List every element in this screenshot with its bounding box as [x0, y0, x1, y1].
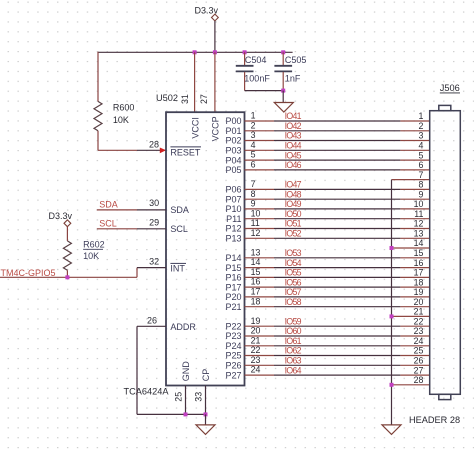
- wire net IO59: [274, 325, 400, 327]
- pin 17 P20 stub: [245, 296, 275, 298]
- wire net IO47: [274, 188, 400, 190]
- svg-text:P22: P22: [225, 321, 241, 331]
- header pin 26 stub: [400, 364, 429, 366]
- wire net IO58: [274, 306, 400, 308]
- svg-text:13: 13: [251, 247, 261, 257]
- header pin 4 stub: [400, 149, 429, 151]
- ground under header: [382, 425, 401, 435]
- wire net IO54: [274, 267, 400, 269]
- wire net IO41: [274, 120, 400, 122]
- svg-text:P26: P26: [225, 361, 241, 371]
- wire net IO43: [274, 140, 400, 142]
- svg-text:25: 25: [174, 392, 184, 402]
- wire net IO48: [274, 198, 400, 200]
- header pin 25 stub: [400, 355, 429, 357]
- pin 26 ADDR stub: [137, 325, 166, 327]
- svg-text:TM4C-GPIO5: TM4C-GPIO5: [1, 268, 56, 278]
- wire net IO44: [274, 149, 400, 151]
- wire net IO57: [274, 296, 400, 298]
- svg-text:7: 7: [251, 179, 256, 189]
- svg-text:SCL: SCL: [99, 218, 117, 228]
- svg-text:31: 31: [180, 94, 190, 104]
- header ground pin 14 stub: [392, 247, 430, 249]
- svg-text:24: 24: [251, 365, 261, 375]
- reference J506: [440, 83, 460, 93]
- svg-text:P03: P03: [225, 146, 241, 156]
- svg-text:GND: GND: [181, 361, 191, 382]
- svg-text:32: 32: [149, 257, 159, 267]
- svg-text:19: 19: [251, 316, 261, 326]
- svg-text:10K: 10K: [83, 251, 99, 261]
- svg-text:1nF: 1nF: [285, 73, 301, 83]
- pin 8 P07 stub: [245, 198, 275, 200]
- pin 27 VCCP stub: [214, 52, 216, 112]
- header ground pin 7 stub: [392, 179, 430, 181]
- pin 30 SDA stub: [137, 209, 166, 211]
- svg-text:26: 26: [414, 356, 424, 366]
- svg-text:IO43: IO43: [285, 131, 302, 141]
- pin 29 SCL stub: [137, 228, 166, 230]
- svg-text:P14: P14: [225, 253, 241, 263]
- svg-text:5: 5: [251, 150, 256, 160]
- svg-text:3: 3: [251, 130, 256, 140]
- header pin 2 stub: [400, 130, 429, 132]
- junction header pin 14: [390, 246, 394, 250]
- wire RESET net: [98, 149, 137, 151]
- svg-text:16: 16: [414, 258, 424, 268]
- svg-text:P27: P27: [225, 370, 241, 380]
- pin 3 P02 stub: [245, 140, 275, 142]
- op-amp expander U502 body: [166, 112, 245, 385]
- svg-text:IO50: IO50: [285, 209, 302, 219]
- wire net IO53: [274, 257, 400, 259]
- svg-text:C504: C504: [245, 55, 267, 65]
- svg-text:8: 8: [418, 180, 423, 190]
- pin 11 P12 stub: [245, 228, 275, 230]
- header pin 16 stub: [400, 267, 429, 269]
- svg-text:P16: P16: [225, 273, 241, 283]
- header pin 27 stub: [400, 374, 429, 376]
- wire net IO60: [274, 335, 400, 337]
- svg-text:22: 22: [414, 316, 424, 326]
- svg-text:P07: P07: [225, 194, 241, 204]
- header pin 24 stub: [400, 345, 429, 347]
- svg-text:HEADER 28: HEADER 28: [409, 415, 460, 425]
- resistor R602: [63, 240, 104, 271]
- pin 4 P03 stub: [245, 149, 275, 151]
- svg-text:1: 1: [418, 111, 423, 121]
- svg-text:IO59: IO59: [285, 316, 302, 326]
- wire TM4C-GPIO5: [0, 276, 137, 278]
- svg-text:P20: P20: [225, 292, 241, 302]
- svg-text:7: 7: [418, 170, 423, 180]
- svg-text:18: 18: [414, 277, 424, 287]
- svg-text:P02: P02: [225, 136, 241, 146]
- header pin 1 stub: [400, 120, 429, 122]
- wire ground stub under caps: [282, 91, 284, 103]
- svg-text:26: 26: [147, 315, 157, 325]
- pin 2 P01 stub: [245, 130, 275, 132]
- junction on rail at pin 27 / D3.3v: [213, 50, 217, 54]
- svg-text:21: 21: [251, 335, 261, 345]
- pin 5 P04 stub: [245, 159, 275, 161]
- header pin 19 stub: [400, 296, 429, 298]
- svg-text:IO42: IO42: [285, 121, 302, 131]
- header pin 23 stub: [400, 335, 429, 337]
- svg-text:P05: P05: [225, 165, 241, 175]
- svg-text:9: 9: [418, 189, 423, 199]
- pin 15 P16 stub: [245, 276, 275, 278]
- svg-text:D3.3v: D3.3v: [49, 211, 73, 221]
- pin 14 P15 stub: [245, 267, 275, 269]
- svg-text:CP: CP: [201, 369, 211, 382]
- wire net IO52: [274, 237, 400, 239]
- svg-text:SCL: SCL: [170, 224, 188, 234]
- pin 1 P00 stub: [245, 120, 275, 122]
- svg-text:23: 23: [251, 355, 261, 365]
- svg-text:12: 12: [251, 228, 261, 238]
- wire header ground vertical: [391, 180, 393, 425]
- svg-text:16: 16: [251, 277, 261, 287]
- wire net IO46: [274, 169, 400, 171]
- pin 12 P13 stub: [245, 237, 275, 239]
- junction header pin 21: [390, 314, 394, 318]
- header pin 3 stub: [400, 140, 429, 142]
- svg-text:P17: P17: [225, 282, 241, 292]
- pin 20 P23 stub: [245, 335, 275, 337]
- svg-text:P15: P15: [225, 263, 241, 273]
- svg-text:3: 3: [418, 131, 423, 141]
- svg-text:IO44: IO44: [285, 141, 302, 151]
- svg-text:30: 30: [149, 198, 159, 208]
- svg-text:11: 11: [414, 209, 423, 219]
- svg-text:VCCP: VCCP: [211, 116, 221, 141]
- junction on rail at pin 31: [193, 50, 197, 54]
- wire net IO63: [274, 364, 400, 366]
- pin 24 P27 stub: [245, 374, 275, 376]
- header pin 17 stub: [400, 276, 429, 278]
- svg-text:IO52: IO52: [285, 229, 302, 239]
- svg-text:27: 27: [414, 365, 424, 375]
- svg-text:28: 28: [414, 375, 424, 385]
- junction header pin 28: [390, 383, 394, 387]
- svg-text:IO62: IO62: [285, 346, 302, 356]
- ground under U502: [196, 425, 215, 435]
- header pin 22 stub: [400, 325, 429, 327]
- svg-text:IO64: IO64: [285, 365, 302, 375]
- svg-text:P10: P10: [225, 204, 241, 214]
- junction at C505 top: [281, 50, 285, 54]
- svg-text:11: 11: [251, 218, 260, 228]
- svg-text:2: 2: [418, 121, 423, 131]
- pin 32 INT stub: [137, 267, 166, 269]
- svg-text:24: 24: [414, 336, 424, 346]
- header pin 6 stub: [400, 169, 429, 171]
- pin 16 P17 stub: [245, 286, 275, 288]
- svg-text:10K: 10K: [113, 115, 129, 125]
- pin 7 P06 stub: [245, 188, 275, 190]
- wire R600 top stem: [97, 52, 99, 102]
- pin 10 P11 stub: [245, 218, 275, 220]
- pin 19 P22 stub: [245, 325, 275, 327]
- wire IC bottom ground: [137, 413, 206, 415]
- svg-text:6: 6: [251, 160, 256, 170]
- ERC arrow at RESET pin: [160, 148, 166, 154]
- junction at C505 bottom: [281, 89, 285, 93]
- svg-text:12: 12: [414, 219, 424, 229]
- resistor R600: [94, 101, 134, 130]
- header pin 5 stub: [400, 159, 429, 161]
- svg-text:C505: C505: [285, 55, 307, 65]
- wire D3.3v stem: [214, 21, 216, 52]
- header pin 8 stub: [400, 188, 429, 190]
- svg-text:20: 20: [251, 326, 261, 336]
- svg-text:2: 2: [251, 120, 256, 130]
- header pin 11 stub: [400, 218, 429, 220]
- power symbol D3.3v left diamond: [64, 220, 71, 227]
- header pin 13 stub: [400, 237, 429, 239]
- svg-text:P24: P24: [225, 341, 241, 351]
- svg-text:VCCI: VCCI: [190, 117, 200, 139]
- svg-text:IO51: IO51: [285, 219, 302, 229]
- svg-text:J506: J506: [440, 83, 460, 93]
- header pin 10 stub: [400, 208, 429, 210]
- header pin 18 stub: [400, 286, 429, 288]
- ground under capacitors: [274, 103, 293, 113]
- svg-text:4: 4: [251, 140, 256, 150]
- wire R602 top stem: [66, 227, 68, 241]
- svg-text:25: 25: [414, 346, 424, 356]
- wire net IO56: [274, 286, 400, 288]
- connector J506 body: [430, 105, 461, 399]
- svg-text:IO47: IO47: [285, 180, 302, 190]
- svg-text:R602: R602: [83, 240, 105, 250]
- svg-text:P25: P25: [225, 351, 241, 361]
- svg-text:IO55: IO55: [285, 268, 302, 278]
- wire ground stub under CP: [205, 414, 207, 425]
- pin 23 P26 stub: [245, 364, 275, 366]
- svg-text:23: 23: [414, 326, 424, 336]
- svg-text:IO63: IO63: [285, 356, 302, 366]
- wire SCL: [97, 228, 137, 230]
- junction at C504: [243, 50, 247, 54]
- pin 33 CP stub: [205, 386, 207, 415]
- svg-text:9: 9: [251, 199, 256, 209]
- svg-text:1: 1: [251, 111, 256, 121]
- svg-text:14: 14: [251, 257, 261, 267]
- wire net IO51: [274, 228, 400, 230]
- svg-text:U502: U502: [156, 93, 178, 103]
- svg-text:4: 4: [418, 141, 423, 151]
- header ground pin 21 stub: [392, 315, 430, 317]
- svg-text:20: 20: [414, 297, 424, 307]
- svg-text:IO61: IO61: [285, 336, 302, 346]
- wire R600 bottom stem: [97, 131, 99, 151]
- svg-text:100nF: 100nF: [244, 73, 270, 83]
- wire net IO50: [274, 218, 400, 220]
- wire net IO55: [274, 276, 400, 278]
- header pin 20 stub: [400, 306, 429, 308]
- wire net IO64: [274, 374, 400, 376]
- svg-text:RESET: RESET: [170, 147, 201, 157]
- wire INT jog vertical: [136, 268, 138, 278]
- pin 21 P24 stub: [245, 345, 275, 347]
- pin 22 P25 stub: [245, 355, 275, 357]
- svg-text:ADDR: ADDR: [170, 322, 196, 332]
- svg-text:17: 17: [414, 268, 424, 278]
- svg-text:10: 10: [414, 199, 424, 209]
- wire R602 bottom stem: [66, 270, 68, 277]
- svg-text:IO58: IO58: [285, 297, 302, 307]
- svg-text:15: 15: [414, 248, 424, 258]
- svg-text:15: 15: [251, 267, 261, 277]
- capacitor C505: [274, 52, 306, 90]
- pin 9 P10 stub: [245, 208, 275, 210]
- svg-text:P06: P06: [225, 185, 241, 195]
- svg-text:18: 18: [251, 296, 261, 306]
- svg-text:27: 27: [199, 94, 209, 104]
- svg-text:13: 13: [414, 229, 424, 239]
- junction at R602 bottom: [65, 275, 69, 279]
- svg-text:6: 6: [418, 160, 423, 170]
- svg-text:IO48: IO48: [285, 189, 302, 199]
- pin 6 P05 stub: [245, 169, 275, 171]
- svg-text:P21: P21: [225, 302, 241, 312]
- svg-text:21: 21: [414, 307, 424, 317]
- header pin 9 stub: [400, 198, 429, 200]
- wire net IO45: [274, 159, 400, 161]
- svg-text:10: 10: [251, 208, 261, 218]
- svg-text:22: 22: [251, 345, 261, 355]
- svg-text:IO57: IO57: [285, 287, 302, 297]
- wire top power rail: [98, 51, 293, 53]
- junction at GND pin: [184, 412, 188, 416]
- wire ADDR to ground vertical: [136, 326, 138, 414]
- svg-text:28: 28: [149, 139, 159, 149]
- capacitor C504: [236, 52, 271, 90]
- svg-text:IO49: IO49: [285, 199, 302, 209]
- svg-text:IO56: IO56: [285, 277, 302, 287]
- pin 13 P14 stub: [245, 257, 275, 259]
- svg-text:P04: P04: [225, 155, 241, 165]
- svg-text:IO41: IO41: [285, 111, 302, 121]
- svg-text:8: 8: [251, 189, 256, 199]
- wire SDA: [97, 209, 137, 211]
- wire net IO62: [274, 355, 400, 357]
- svg-text:SDA: SDA: [99, 200, 118, 210]
- svg-text:P11: P11: [226, 214, 241, 224]
- svg-text:P12: P12: [225, 224, 241, 234]
- svg-text:INT: INT: [170, 264, 185, 274]
- svg-text:P01: P01: [225, 126, 241, 136]
- svg-text:33: 33: [194, 392, 204, 402]
- svg-text:P23: P23: [225, 331, 241, 341]
- power symbol D3.3v top diamond: [212, 14, 219, 21]
- pin 31 VCCI stub: [194, 52, 196, 112]
- svg-text:29: 29: [149, 217, 159, 227]
- svg-text:R600: R600: [113, 103, 135, 113]
- svg-text:14: 14: [414, 238, 424, 248]
- svg-text:IO46: IO46: [285, 160, 302, 170]
- svg-text:P00: P00: [225, 116, 241, 126]
- svg-text:SDA: SDA: [170, 205, 189, 215]
- junction at CP pin: [204, 412, 208, 416]
- header pin 15 stub: [400, 257, 429, 259]
- wire net IO61: [274, 345, 400, 347]
- svg-text:IO53: IO53: [285, 248, 302, 258]
- pin 18 P21 stub: [245, 306, 275, 308]
- header ground pin 28 stub: [392, 384, 430, 386]
- pin 25 GND stub: [185, 386, 187, 415]
- svg-text:IO45: IO45: [285, 150, 302, 160]
- svg-text:IO54: IO54: [285, 258, 302, 268]
- pin name INT with overline: [170, 263, 186, 273]
- wire capacitor bottoms: [245, 90, 284, 92]
- header pin 12 stub: [400, 228, 429, 230]
- wire net IO49: [274, 208, 400, 210]
- svg-text:P13: P13: [225, 234, 241, 244]
- svg-text:5: 5: [418, 150, 423, 160]
- svg-text:19: 19: [414, 287, 424, 297]
- wire net IO42: [274, 130, 400, 132]
- pin name RESET with overline: [170, 147, 201, 158]
- pin 28 RESET stub: [137, 149, 166, 151]
- svg-text:IO60: IO60: [285, 326, 302, 336]
- svg-text:TCA6424A: TCA6424A: [124, 386, 170, 396]
- svg-text:17: 17: [251, 287, 261, 297]
